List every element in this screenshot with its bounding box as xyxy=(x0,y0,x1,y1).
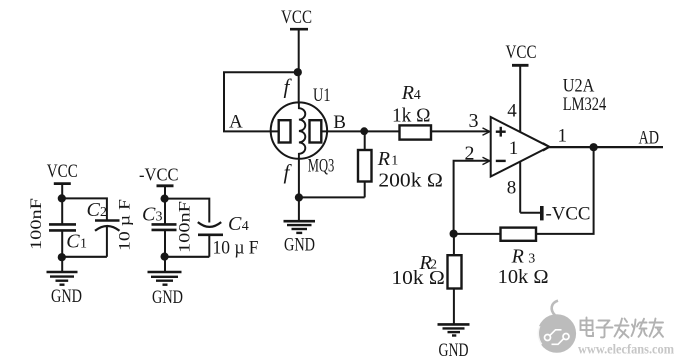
svg-text:100nF: 100nF xyxy=(28,198,45,250)
svg-text:C: C xyxy=(142,204,156,226)
ground (cap bank 1) xyxy=(47,257,83,307)
wire cap2 bottom rail xyxy=(165,256,209,258)
watermark logo xyxy=(538,301,577,353)
ground (R2) xyxy=(438,324,470,361)
svg-text:VCC: VCC xyxy=(47,161,78,182)
watermark text (vector CJK strokes) xyxy=(581,318,664,338)
capacitor C2 xyxy=(87,199,134,257)
wire R4 to op-amp pin 3 xyxy=(431,110,490,135)
ground (sensor) xyxy=(284,221,316,256)
power -VCC (op-amp) xyxy=(542,203,591,224)
svg-text:GND: GND xyxy=(152,287,183,308)
svg-text:3: 3 xyxy=(156,210,163,225)
svg-text:8: 8 xyxy=(507,178,517,199)
wire feedback (output to R3) xyxy=(536,147,594,234)
电 xyxy=(587,318,594,337)
svg-text:R: R xyxy=(511,245,524,267)
svg-text:A: A xyxy=(229,112,243,133)
capacitor C3 xyxy=(142,201,194,257)
resistor R4 xyxy=(392,82,431,140)
capacitor C4 xyxy=(198,213,259,259)
wire output to AD xyxy=(543,126,663,151)
svg-text:10 µ F: 10 µ F xyxy=(213,238,259,259)
svg-text:R: R xyxy=(377,148,390,170)
子 xyxy=(599,321,610,326)
svg-text:VCC: VCC xyxy=(281,7,312,28)
wire pin 4 xyxy=(519,65,521,132)
svg-text:10 µ F: 10 µ F xyxy=(117,199,134,251)
power VCC (op-amp) xyxy=(506,42,537,65)
ground (cap bank 2) xyxy=(148,257,184,308)
svg-text:1k Ω: 1k Ω xyxy=(392,105,431,126)
发 xyxy=(615,325,629,327)
烧 xyxy=(632,320,636,337)
svg-text:1: 1 xyxy=(80,237,87,252)
node B junction xyxy=(360,127,368,135)
power -VCC (cap bank 2) xyxy=(139,165,179,186)
node cap1 top junction xyxy=(58,194,66,202)
op-amp U2A xyxy=(491,75,607,198)
svg-text:10k Ω: 10k Ω xyxy=(391,267,445,289)
resistor R1 xyxy=(299,131,443,197)
svg-text:GND: GND xyxy=(439,340,469,361)
wire pin 2 input xyxy=(454,143,490,234)
svg-text:2: 2 xyxy=(465,143,475,165)
wire cap2 branch rail xyxy=(165,199,209,223)
wire VCC to sensor top xyxy=(298,29,300,103)
svg-text:MQ3: MQ3 xyxy=(308,155,335,176)
sensor U1 MQ3 xyxy=(271,75,346,185)
wire B to R4 xyxy=(321,130,399,132)
svg-text:1: 1 xyxy=(391,154,398,169)
svg-text:4: 4 xyxy=(507,101,517,122)
svg-text:C: C xyxy=(66,231,80,253)
svg-text:GND: GND xyxy=(51,286,82,307)
wire cap1 bottom rail xyxy=(62,256,107,258)
svg-text:R: R xyxy=(401,82,414,104)
wire pin 8 to -VCC xyxy=(519,162,521,213)
svg-text:1: 1 xyxy=(558,126,568,147)
wire cap1 branch rail xyxy=(62,198,107,220)
svg-text:100nF: 100nF xyxy=(177,201,194,253)
node f-top junction xyxy=(294,68,302,76)
svg-text:200k Ω: 200k Ω xyxy=(378,169,443,191)
svg-text:C: C xyxy=(228,213,242,235)
node feedback junction xyxy=(450,230,458,238)
svg-text:GND: GND xyxy=(284,235,315,256)
svg-text:-VCC: -VCC xyxy=(139,165,179,185)
svg-text:LM324: LM324 xyxy=(563,94,607,115)
svg-text:10k Ω: 10k Ω xyxy=(498,266,549,288)
capacitor C1 xyxy=(28,198,87,257)
node output junction xyxy=(590,143,598,151)
svg-text:U1: U1 xyxy=(313,85,331,106)
svg-text:1: 1 xyxy=(509,138,519,159)
svg-text:-VCC: -VCC xyxy=(546,203,591,224)
wire loop to terminal A xyxy=(224,72,298,131)
svg-text:2: 2 xyxy=(100,205,107,220)
resistor R3 xyxy=(454,228,549,288)
友 xyxy=(650,322,664,324)
svg-text:www.elecfans.com: www.elecfans.com xyxy=(578,342,675,357)
svg-text:4: 4 xyxy=(242,219,249,234)
svg-text:B: B xyxy=(333,112,346,133)
node cap1 bottom junction xyxy=(58,253,66,261)
node cap2 bottom junction xyxy=(161,253,169,261)
power VCC (sensor supply) xyxy=(281,7,312,29)
svg-text:C: C xyxy=(87,199,101,221)
node sensor-ground junction xyxy=(295,193,303,201)
svg-text:3: 3 xyxy=(469,110,479,132)
power VCC (cap bank 1) xyxy=(47,161,78,184)
resistor R2 xyxy=(391,234,461,324)
svg-text:4: 4 xyxy=(414,88,421,103)
wire VCC rail to C1 xyxy=(61,184,63,225)
wire -VCC rail to C3 xyxy=(164,186,166,225)
svg-text:AD: AD xyxy=(639,128,660,149)
wire sensor bottom to ground xyxy=(298,159,300,221)
svg-text:3: 3 xyxy=(528,251,535,266)
node cap2 top junction xyxy=(161,195,169,203)
svg-text:VCC: VCC xyxy=(506,42,537,63)
